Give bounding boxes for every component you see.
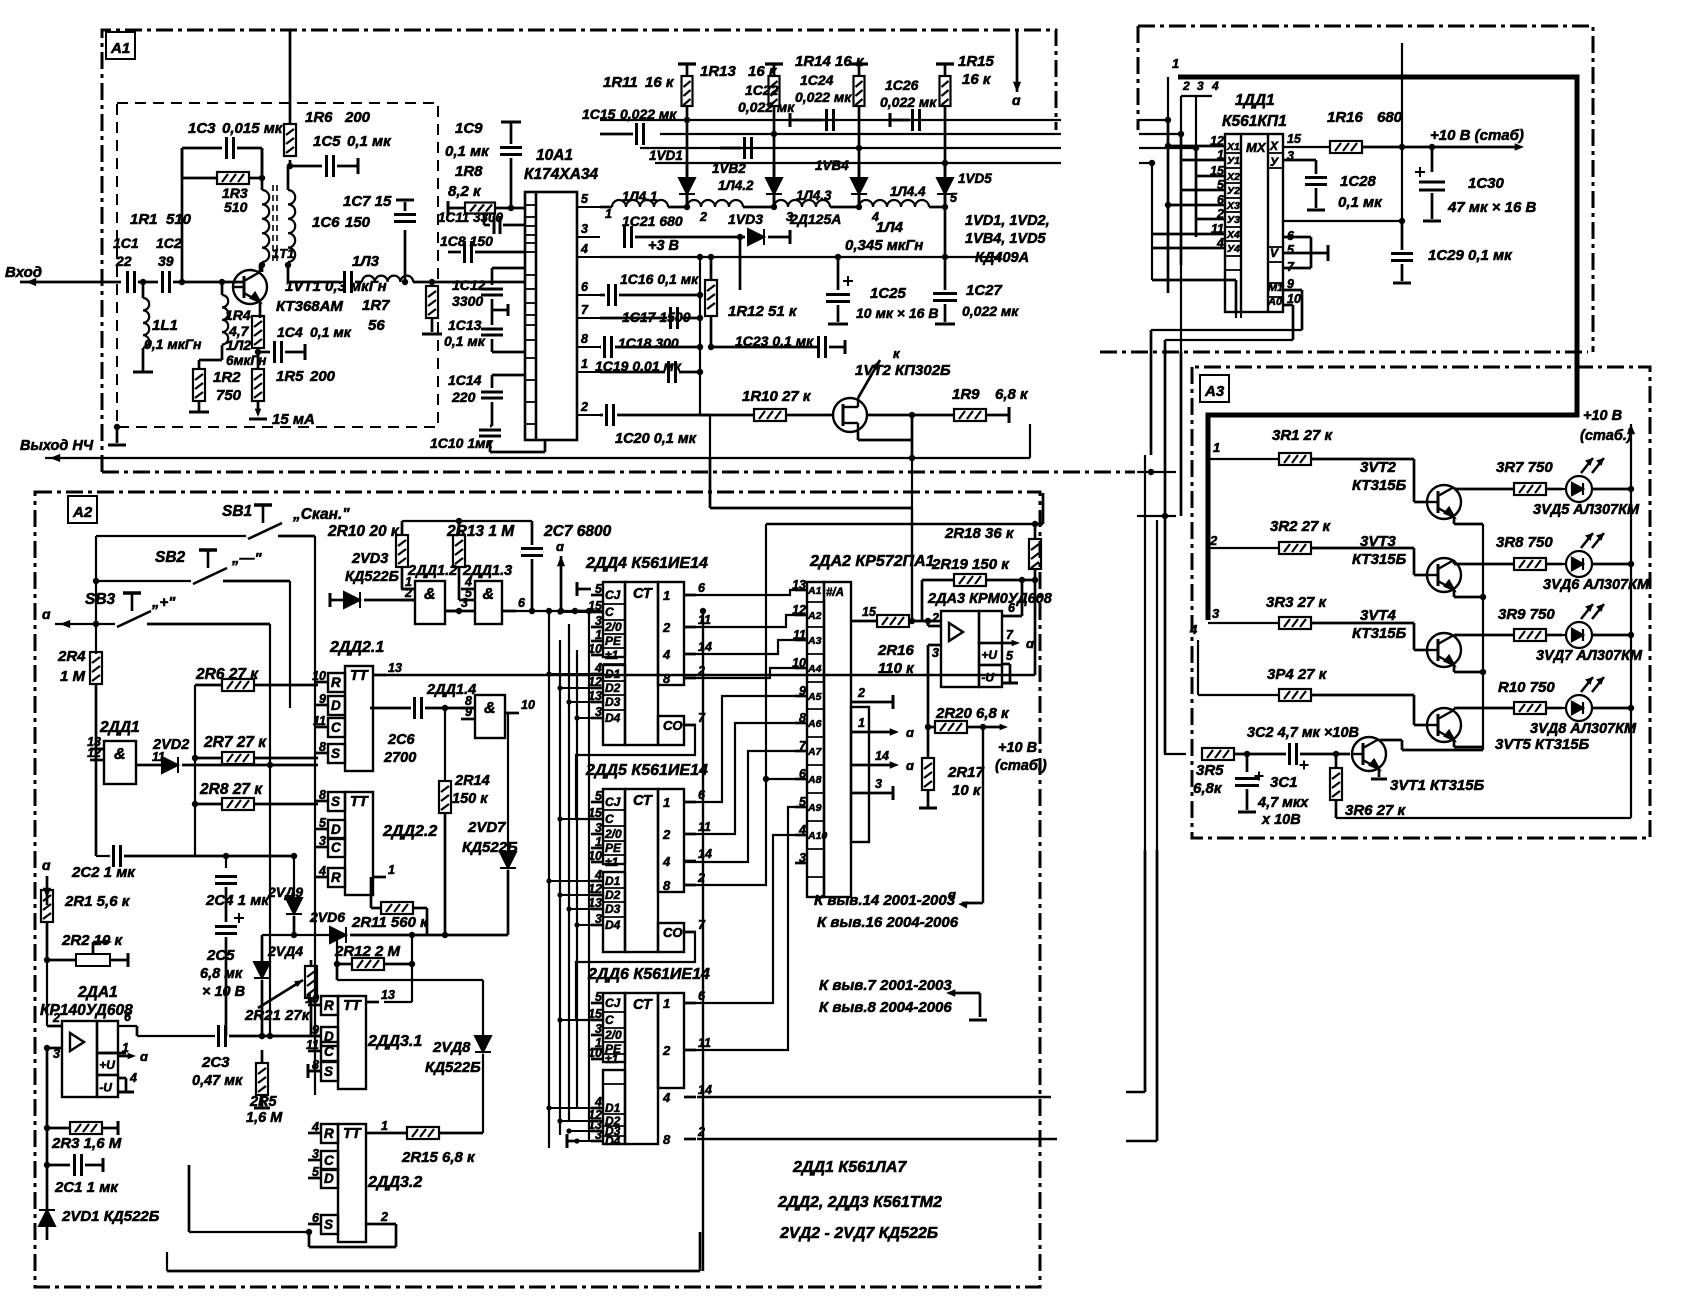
svg-text:2С4 1 мк: 2С4 1 мк	[205, 892, 270, 909]
svg-text:A3: A3	[1204, 383, 1225, 400]
capacitor 1C16	[609, 284, 616, 306]
svg-text:#/А: #/А	[826, 587, 844, 599]
svg-text:3: 3	[319, 834, 326, 848]
svg-text:C: C	[324, 1044, 334, 1059]
inductor 1T1 secondary	[288, 190, 295, 262]
capacitor 1C8	[465, 241, 472, 263]
svg-text:1: 1	[381, 1119, 388, 1133]
svg-text:3: 3	[53, 1047, 60, 1061]
resistor 2R14	[439, 781, 451, 813]
ground	[1371, 778, 1387, 781]
svg-text:2ДД3.2: 2ДД3.2	[367, 1174, 422, 1191]
diode 1VD2	[766, 178, 782, 194]
svg-text:1: 1	[388, 863, 395, 877]
svg-text:8,2 к: 8,2 к	[448, 183, 482, 200]
wire	[289, 581, 291, 708]
svg-text:+10 В: +10 В	[1583, 408, 1622, 424]
resistor 1R13	[769, 76, 780, 106]
resistor 2R11	[381, 902, 413, 914]
svg-text:2С5: 2С5	[206, 947, 235, 964]
svg-text:C: C	[324, 1153, 334, 1168]
svg-text:Выход НЧ: Выход НЧ	[20, 438, 94, 454]
capacitor 2C2	[114, 845, 121, 867]
svg-text:2VД8: 2VД8	[432, 1039, 471, 1056]
svg-text:15: 15	[1210, 164, 1225, 178]
svg-text:4: 4	[594, 661, 602, 675]
wire d5	[684, 696, 795, 802]
flip-flop 2ДД3.2	[321, 1124, 366, 1242]
resistor 2R13	[453, 535, 465, 567]
svg-text:+U: +U	[99, 1058, 115, 1072]
svg-text:2С6: 2С6	[387, 732, 416, 748]
svg-text:S: S	[331, 794, 340, 809]
resistor 1R5	[252, 369, 264, 401]
diode 1VD4	[851, 178, 867, 194]
svg-text:1R12 51 к: 1R12 51 к	[728, 303, 798, 320]
svg-text:2ДА1: 2ДА1	[77, 984, 118, 1001]
wire bus4	[655, 162, 1061, 164]
svg-text:5: 5	[595, 582, 603, 596]
wire d7	[684, 751, 795, 862]
wire	[1401, 43, 1403, 221]
svg-text:1VD1: 1VD1	[649, 148, 683, 163]
ground	[189, 411, 209, 414]
svg-text:2: 2	[857, 686, 865, 700]
wire bus3	[640, 147, 1061, 149]
svg-text:1R7: 1R7	[362, 297, 390, 314]
svg-text:2R10 20 к: 2R10 20 к	[327, 523, 400, 540]
wire to K vyv14	[982, 727, 984, 903]
svg-text:6: 6	[799, 767, 807, 781]
resistor 1R10	[754, 409, 786, 421]
svg-text:2VД4: 2VД4	[267, 943, 303, 959]
wire	[411, 935, 413, 1002]
svg-text:S: S	[324, 1064, 333, 1079]
svg-text:МХ: МХ	[1246, 140, 1267, 155]
wire	[137, 1035, 215, 1037]
wire d9	[684, 807, 795, 1050]
diode 2VD3	[344, 592, 360, 608]
svg-text:11: 11	[698, 613, 711, 627]
svg-text:РЕ: РЕ	[605, 634, 622, 648]
svg-text:С: С	[605, 812, 614, 826]
svg-text:3VД8 АЛ307КМ: 3VД8 АЛ307КМ	[1530, 721, 1637, 737]
capacitor 2C7	[521, 549, 543, 556]
svg-text:10: 10	[521, 698, 535, 712]
transistor 3VT5 КТ315Б	[1427, 708, 1461, 742]
svg-text:х 10В: х 10В	[1261, 812, 1301, 828]
svg-text:7: 7	[1006, 628, 1014, 642]
svg-text:7: 7	[581, 303, 589, 317]
svg-text:1С26: 1С26	[885, 77, 919, 93]
svg-text:R: R	[324, 998, 334, 1013]
svg-text:3R1 27 к: 3R1 27 к	[1272, 427, 1334, 444]
resistor 2R8	[222, 798, 254, 810]
svg-text:D1: D1	[605, 1101, 621, 1115]
capacitor 2C6	[415, 697, 422, 719]
svg-text:0,022 мк: 0,022 мк	[962, 303, 1019, 319]
svg-text:4: 4	[1216, 236, 1224, 250]
svg-text:5: 5	[1287, 243, 1295, 257]
svg-text:200: 200	[344, 109, 371, 126]
svg-text:„Скан.": „Скан."	[292, 506, 350, 523]
svg-text:1: 1	[595, 835, 602, 849]
wire d2	[684, 615, 795, 627]
svg-text:1L1: 1L1	[152, 317, 178, 334]
svg-text:&: &	[484, 700, 496, 717]
svg-text:10: 10	[588, 642, 602, 656]
svg-text:2ДД3.1: 2ДД3.1	[367, 1033, 422, 1050]
svg-text:3: 3	[595, 821, 602, 835]
svg-text:11: 11	[1211, 222, 1224, 236]
svg-text:15: 15	[862, 605, 877, 619]
svg-text:1С15: 1С15	[582, 106, 616, 122]
capacitor 1C15	[637, 123, 644, 145]
ground	[1307, 209, 1325, 212]
logic gate 2DD1	[104, 741, 136, 784]
wire row1	[1208, 458, 1279, 460]
resistor 2R6	[222, 679, 254, 691]
svg-text:14: 14	[698, 1083, 712, 1097]
capacitor 2C4	[215, 877, 237, 884]
svg-text:1: 1	[663, 588, 670, 603]
ground	[422, 333, 442, 336]
wire	[314, 536, 316, 1095]
svg-text:1,6 М: 1,6 М	[246, 1110, 283, 1126]
svg-text:0,022 мк: 0,022 мк	[738, 99, 795, 115]
svg-text:1С1: 1С1	[113, 235, 139, 251]
wire	[262, 934, 330, 936]
capacitor 1C5	[327, 155, 334, 177]
svg-text:1Л3: 1Л3	[352, 253, 380, 270]
svg-text:М1: М1	[1268, 282, 1283, 294]
svg-text:±1: ±1	[605, 855, 619, 869]
svg-text:2VD7: 2VD7	[467, 819, 506, 836]
svg-text:13: 13	[381, 988, 395, 1002]
capacitor 1C13	[481, 329, 503, 335]
resistor 1R15	[940, 76, 951, 106]
svg-text:A1: A1	[110, 40, 130, 57]
svg-text:3VТ4: 3VТ4	[1360, 607, 1397, 624]
ground	[828, 323, 848, 326]
svg-text:200: 200	[309, 368, 336, 385]
inductor 1L3	[362, 276, 413, 282]
svg-text:2R21 27к: 2R21 27к	[244, 1007, 311, 1024]
svg-text:0,022 мк: 0,022 мк	[620, 106, 677, 122]
capacitor 1C21	[625, 226, 632, 248]
svg-text:3: 3	[595, 1128, 602, 1142]
resistor 1R2	[193, 369, 205, 401]
resistor 2R1	[41, 890, 53, 922]
wire bus1b	[1139, 119, 1168, 121]
wire	[269, 624, 271, 1036]
svg-text:3VД5 АЛ307КМ: 3VД5 АЛ307КМ	[1533, 502, 1640, 518]
svg-text:3: 3	[595, 614, 602, 628]
resistor 2R18	[1029, 539, 1041, 569]
svg-text:КТ315Б: КТ315Б	[1352, 625, 1407, 642]
svg-text:10 мк × 16 В: 10 мк × 16 В	[856, 305, 938, 321]
svg-text:750: 750	[216, 387, 242, 404]
block A1 border	[102, 30, 1135, 472]
op-amp 2DA3	[941, 611, 1002, 687]
svg-text:13: 13	[588, 689, 602, 703]
svg-text:У3: У3	[1227, 214, 1240, 226]
wire gate out	[502, 610, 604, 612]
svg-text:3VД7 АЛ307КМ: 3VД7 АЛ307КМ	[1536, 648, 1643, 664]
svg-text:ɑ: ɑ	[42, 606, 51, 622]
svg-text:6: 6	[698, 581, 706, 595]
resistor 3R4	[1279, 689, 1311, 701]
svg-text:К выв.16 2004-2006: К выв.16 2004-2006	[817, 914, 959, 931]
pin 5 10A1	[577, 206, 600, 208]
resistor 1R7	[426, 286, 438, 318]
capacitor 1C1	[128, 271, 135, 293]
resistor 1R6	[284, 124, 296, 156]
svg-text:1С4: 1С4	[277, 324, 303, 340]
capacitor 1C9	[510, 122, 513, 144]
capacitor 1C28	[1305, 178, 1327, 185]
capacitor 1C23	[819, 336, 826, 358]
svg-text:5: 5	[595, 990, 603, 1004]
resistor 1R4	[252, 316, 264, 348]
flip-flop 2ДД2.1	[328, 666, 373, 771]
resistor 2R16	[877, 615, 909, 627]
svg-text:4,7: 4,7	[228, 323, 250, 339]
svg-text:2VD6: 2VD6	[309, 909, 345, 925]
block A3 border	[1192, 367, 1650, 838]
svg-text:SВ3: SВ3	[85, 591, 116, 608]
svg-text:1R11: 1R11	[603, 74, 638, 91]
ground	[133, 371, 153, 374]
svg-text:2: 2	[931, 611, 939, 625]
wire bus4b	[1139, 162, 1152, 164]
ground	[969, 1019, 987, 1022]
wire	[1283, 146, 1330, 148]
svg-text:У1: У1	[1227, 155, 1240, 167]
resistor 2R17	[922, 758, 934, 790]
svg-text:12: 12	[588, 882, 602, 896]
resistor 1R8	[465, 203, 495, 214]
svg-text:3С2 4,7 мк ×10В: 3С2 4,7 мк ×10В	[1247, 725, 1359, 741]
svg-text:1VВ4: 1VВ4	[815, 158, 849, 173]
svg-text:15: 15	[1287, 132, 1302, 146]
svg-text:6: 6	[124, 1010, 132, 1024]
svg-text:6: 6	[518, 596, 526, 610]
svg-text:1Л4.2: 1Л4.2	[718, 178, 754, 193]
svg-text:3300: 3300	[452, 293, 483, 309]
svg-text:2ДД1.3: 2ДД1.3	[462, 563, 512, 579]
svg-text:А3: А3	[807, 635, 822, 647]
svg-text:12: 12	[1210, 134, 1224, 148]
capacitor 1C30	[1419, 182, 1445, 190]
svg-text:10: 10	[312, 669, 326, 683]
resistor 3R6	[1330, 768, 1342, 800]
svg-text:6,8 к: 6,8 к	[995, 386, 1029, 403]
svg-text:3: 3	[1212, 606, 1220, 621]
LED 3VD5 АЛ307КМ	[1562, 458, 1604, 502]
diode 2VD5	[286, 898, 302, 914]
svg-text:4: 4	[1211, 79, 1219, 93]
svg-text:А7: А7	[807, 746, 823, 758]
svg-text:ɑ: ɑ	[1026, 636, 1034, 651]
switch SB2	[193, 550, 227, 584]
svg-text:4: 4	[318, 864, 326, 878]
svg-text:V: V	[1270, 246, 1279, 260]
svg-text:2R8 27 к: 2R8 27 к	[199, 781, 263, 798]
diode 2VD4	[254, 962, 270, 978]
inductor 1L4.3	[774, 200, 830, 207]
svg-text:8: 8	[663, 878, 671, 893]
wire	[166, 1252, 168, 1271]
inductor 1L2	[222, 295, 228, 345]
resistor 2R2 trimmer	[76, 954, 110, 966]
svg-text:× 10 В: × 10 В	[202, 984, 245, 1000]
DAC outputs	[852, 701, 893, 704]
svg-text:1: 1	[122, 1041, 129, 1055]
wire	[1165, 339, 1293, 341]
svg-text:А8: А8	[807, 774, 822, 786]
svg-text:1С2: 1С2	[156, 235, 182, 251]
svg-text:С: С	[605, 1013, 614, 1027]
ground	[1238, 811, 1256, 814]
ground	[396, 199, 414, 202]
svg-text:2R20 6,8 к: 2R20 6,8 к	[935, 705, 1010, 722]
wire feedback	[911, 508, 913, 621]
svg-text:2VД2 - 2VД7 КД522Б: 2VД2 - 2VД7 КД522Б	[779, 1225, 938, 1242]
svg-text:2: 2	[699, 210, 707, 224]
resistor 2R12	[352, 958, 384, 970]
pin 8 10A1	[577, 346, 600, 348]
svg-text:14: 14	[875, 749, 889, 763]
svg-text:11: 11	[698, 1036, 711, 1050]
svg-text:КТ368АМ: КТ368АМ	[276, 298, 343, 315]
LED 3VD8 АЛ307КМ	[1562, 677, 1604, 721]
svg-text:1R9: 1R9	[952, 386, 980, 403]
svg-text:ɑ: ɑ	[906, 725, 914, 740]
svg-text:R: R	[331, 870, 341, 885]
svg-text:„+": „+"	[151, 594, 176, 611]
svg-text:2: 2	[1209, 533, 1218, 548]
svg-text:1: 1	[605, 207, 612, 221]
diode 1VD1	[679, 178, 695, 194]
diode 2VD8	[475, 1036, 491, 1052]
svg-text:2/0: 2/0	[604, 1028, 622, 1042]
capacitor 1C22	[745, 137, 752, 159]
svg-text:1: 1	[858, 716, 865, 730]
wire	[96, 855, 110, 857]
wire left bus	[95, 536, 97, 654]
capacitor 1C26	[913, 109, 920, 131]
svg-text:16 к: 16 к	[962, 71, 992, 88]
svg-text:A2: A2	[72, 504, 93, 521]
svg-text:2R3 1,6 М: 2R3 1,6 М	[51, 1135, 122, 1152]
svg-text:2R1 5,6 к: 2R1 5,6 к	[64, 893, 131, 910]
svg-text:3R6 27 к: 3R6 27 к	[1345, 802, 1407, 819]
svg-text:2VD2: 2VD2	[152, 737, 189, 753]
wire	[225, 856, 227, 868]
resistor 2R7	[222, 752, 254, 764]
svg-text:680: 680	[1377, 109, 1403, 126]
svg-text:8: 8	[663, 671, 671, 686]
svg-text:1R10 27 к: 1R10 27 к	[742, 388, 812, 405]
transformer core	[273, 185, 277, 265]
svg-text:6мкГн: 6мкГн	[226, 353, 266, 368]
resistor 1R14	[854, 76, 865, 106]
ground	[935, 323, 955, 326]
counter 2ДД5 K561IE14	[603, 789, 684, 952]
wire bus2b	[1139, 133, 1182, 135]
svg-text:У2: У2	[1227, 185, 1240, 197]
svg-text:2С3: 2С3	[201, 1054, 230, 1071]
svg-text:&: &	[114, 746, 126, 763]
svg-text:4,7 мкх: 4,7 мкх	[1257, 795, 1309, 811]
capacitor 1C6	[345, 271, 352, 293]
svg-text:1R4: 1R4	[225, 307, 251, 323]
capacitor 2C3	[219, 1025, 226, 1047]
wire bus	[559, 640, 561, 1135]
svg-text:2ДД1: 2ДД1	[99, 719, 140, 736]
svg-text:1R2: 1R2	[213, 369, 241, 386]
svg-text:56: 56	[368, 317, 385, 334]
svg-text:±1: ±1	[605, 1052, 619, 1066]
svg-text:39: 39	[158, 253, 174, 269]
svg-text:14: 14	[698, 640, 712, 654]
wire d4	[684, 668, 795, 678]
wire Выход НЧ	[45, 457, 1030, 459]
svg-text:6: 6	[312, 1211, 320, 1225]
svg-text:2ДД4 К561ИЕ14: 2ДД4 К561ИЕ14	[585, 555, 708, 572]
svg-text:D: D	[331, 822, 341, 837]
svg-text:1VD3: 1VD3	[728, 211, 763, 227]
svg-text:D: D	[331, 698, 341, 713]
capacitor 2C1	[75, 1154, 82, 1176]
capacitor	[494, 216, 500, 234]
resistor 2R20	[935, 721, 967, 733]
flip-flop 2ДД2.2	[328, 792, 373, 895]
capacitor 1C17	[671, 307, 678, 329]
diode 2VD6	[330, 927, 346, 943]
svg-text:1Л4.1: 1Л4.1	[622, 189, 658, 204]
trimmer arrow 2R21	[258, 980, 303, 1008]
svg-text:2R18 36 к: 2R18 36 к	[944, 525, 1015, 542]
svg-text:Вход: Вход	[5, 264, 42, 281]
svg-text:СО: СО	[663, 718, 683, 733]
svg-text:2R11 560 к: 2R11 560 к	[351, 914, 429, 931]
wire bus3b	[1139, 147, 1196, 149]
wire	[699, 257, 701, 415]
svg-text:ТТ: ТТ	[343, 998, 362, 1014]
svg-text:КД522Б: КД522Б	[425, 1059, 481, 1076]
svg-text:2: 2	[662, 620, 671, 635]
ground	[1423, 220, 1441, 223]
svg-text:D2: D2	[605, 888, 621, 902]
svg-text:1С16 0,1 мк: 1С16 0,1 мк	[620, 271, 699, 287]
resistor 2R21	[305, 966, 317, 998]
svg-text:2: 2	[580, 400, 588, 414]
svg-text:Х: Х	[1269, 139, 1279, 153]
svg-text:510: 510	[224, 199, 248, 215]
wire out4	[697, 1096, 1051, 1098]
svg-text:2VD1 КД522Б: 2VD1 КД522Б	[61, 1208, 160, 1225]
svg-text:6: 6	[581, 280, 589, 294]
svg-text:1С18 300: 1С18 300	[618, 335, 679, 351]
resistor 1R16	[1330, 141, 1362, 153]
resistor 3R2	[1279, 542, 1311, 554]
node a arrow	[560, 556, 563, 575]
svg-text:R: R	[331, 675, 341, 690]
svg-text:3R8 750: 3R8 750	[1496, 534, 1553, 551]
counter 2ДД6 K561IE14	[603, 993, 684, 1144]
